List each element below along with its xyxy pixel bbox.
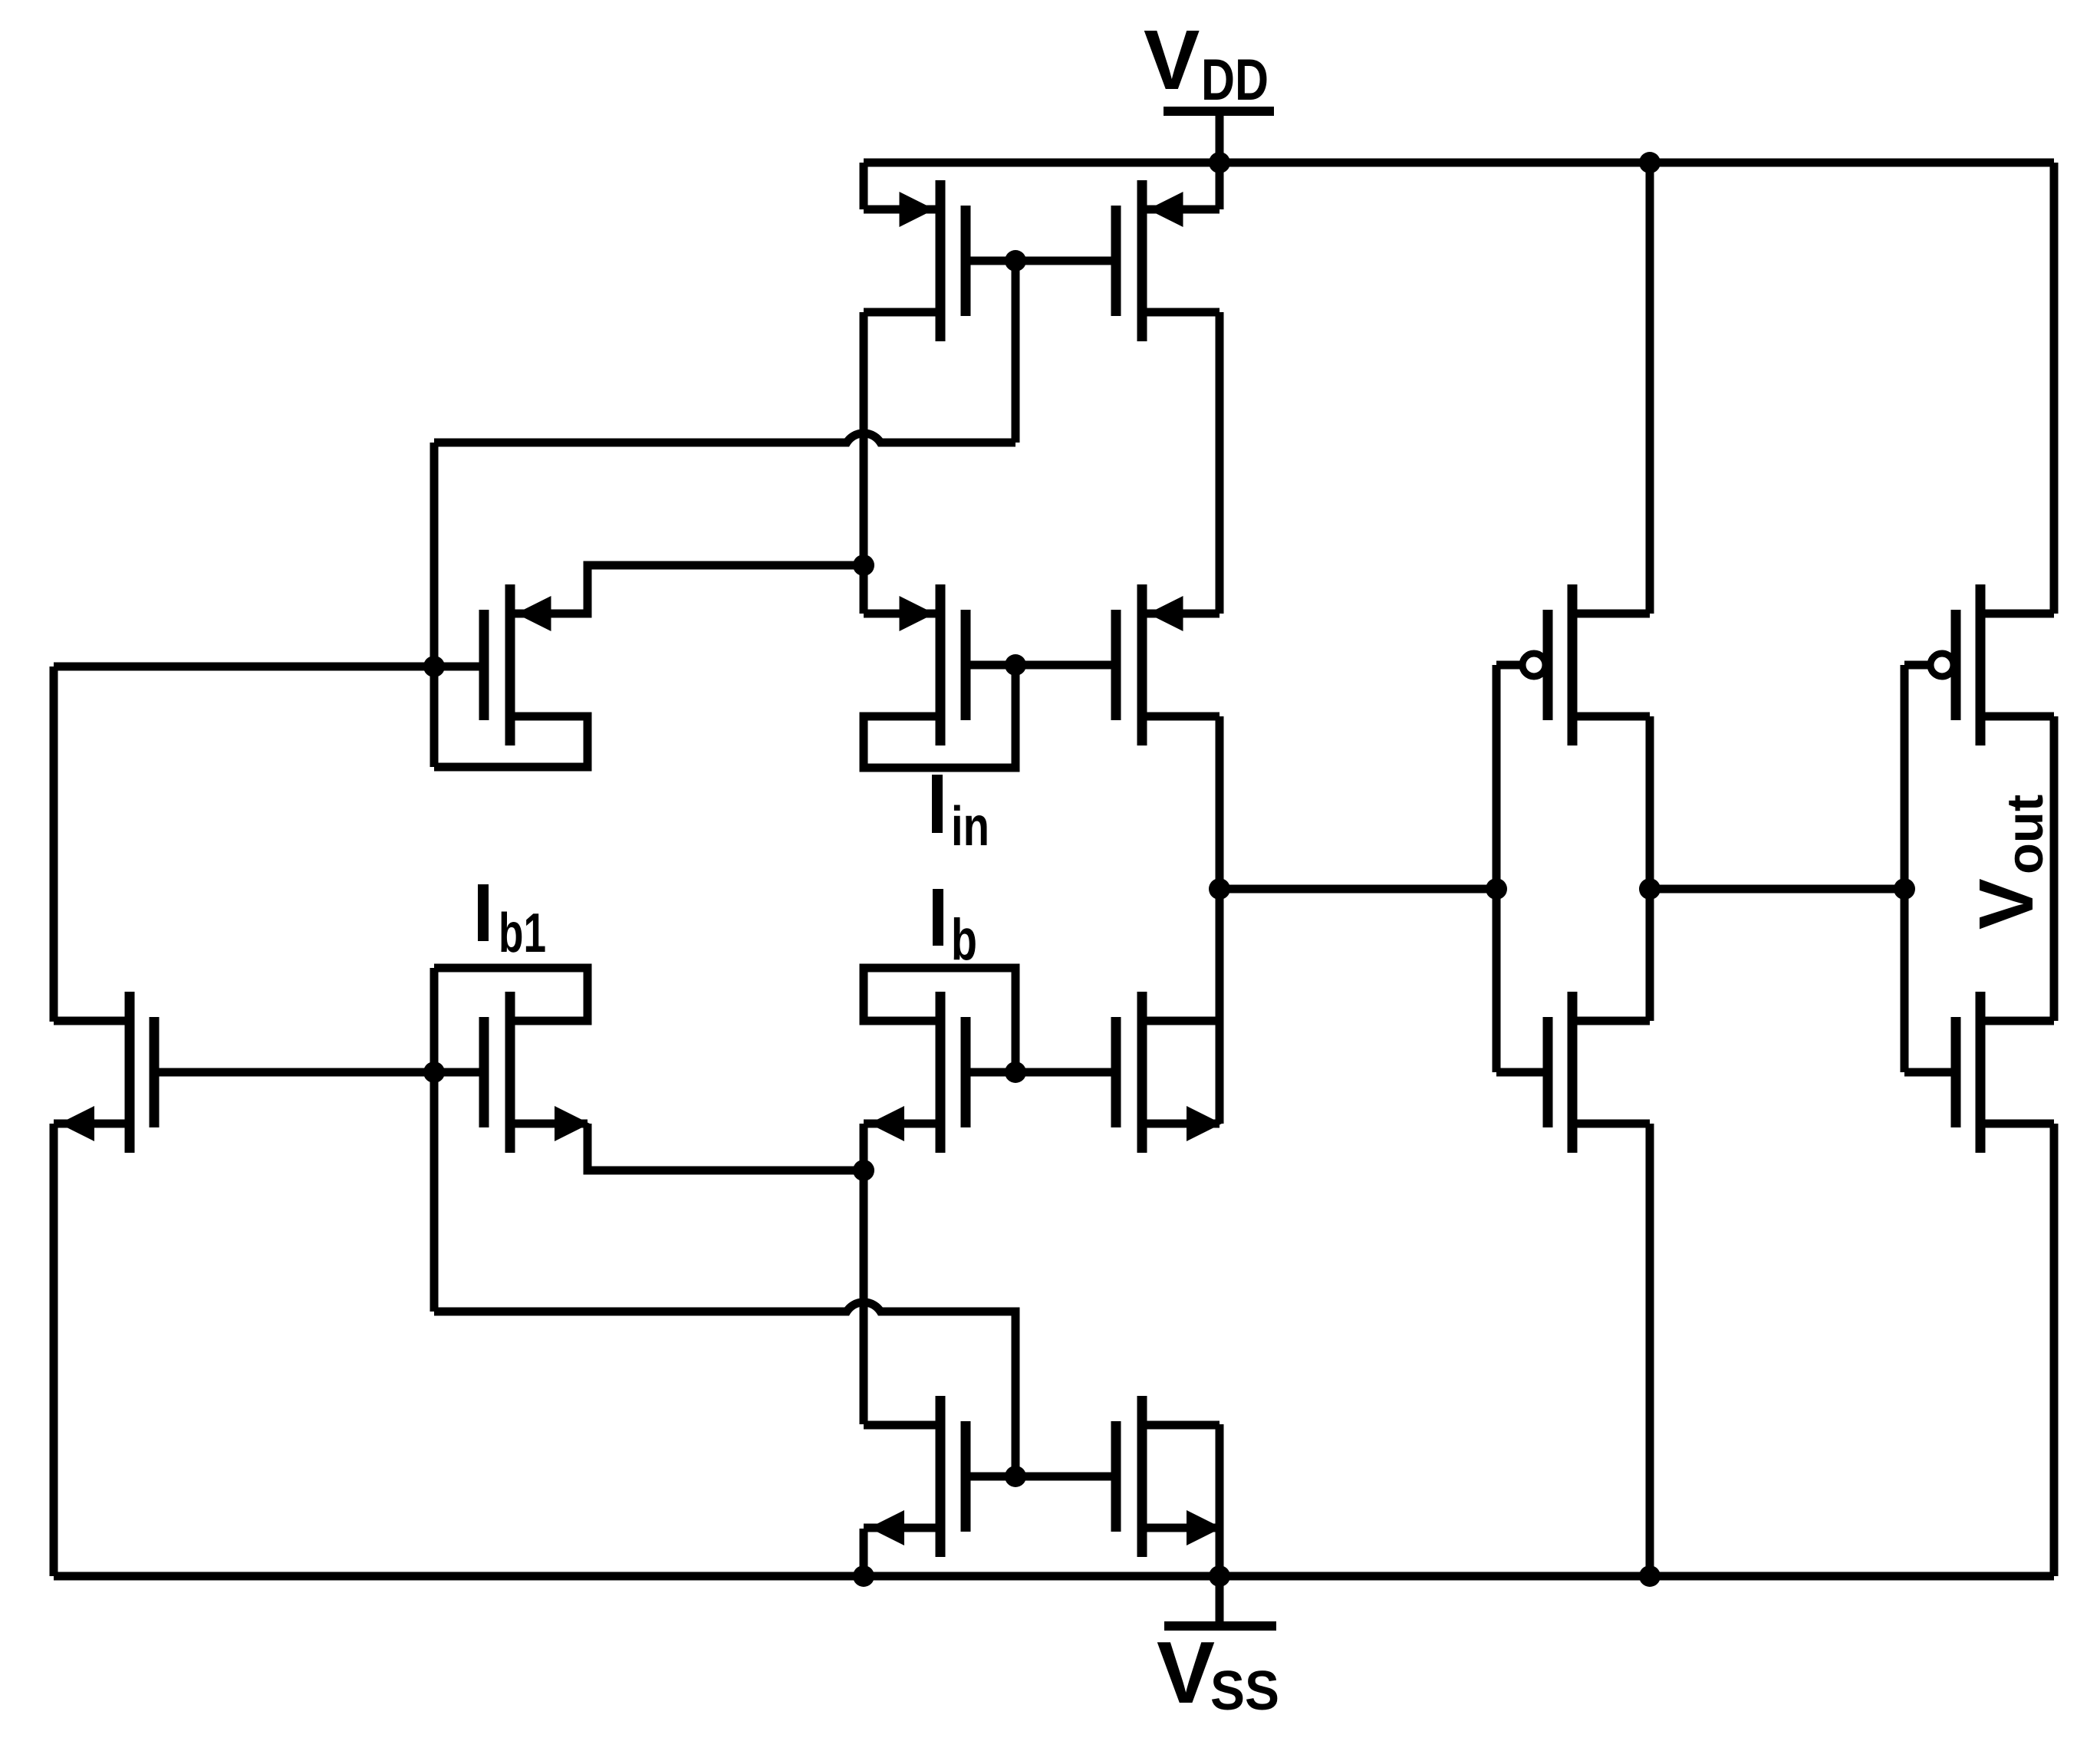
wire M3 source riser to node — [510, 565, 864, 614]
label Ib1 — [478, 884, 489, 941]
op-amp output branch1 NMOS source to rail — [1646, 1124, 1654, 1576]
transistor M7 Ib NMOS right — [1137, 992, 1147, 1153]
wire M3 gate net to far-left NMOS drain — [54, 663, 434, 671]
transistor M9 Ib1 diode NMOS — [505, 992, 515, 1153]
node M3 gate-drain junction — [423, 656, 445, 677]
svg-text:V: V — [1963, 878, 2049, 930]
transistor M10 bottom NMOS left — [936, 1396, 946, 1557]
op-amp output branch2 PMOS — [1951, 610, 1961, 720]
wire M11 drain column — [1216, 1424, 1224, 1529]
svg-text:out: out — [1996, 795, 2054, 874]
wire far-left drain vertical — [50, 666, 58, 1022]
wire y577 to diode PMOS with hop over M1 drain — [434, 433, 1015, 443]
wire M8 gate lead to Ib1 gate node — [154, 1068, 434, 1077]
svg-text:b: b — [951, 907, 977, 973]
wire M10 source to rail — [860, 1529, 868, 1576]
svg-text:b1: b1 — [499, 903, 546, 964]
node output stage1 junction — [1209, 878, 1230, 900]
wire M10-M11 gate link — [966, 1473, 1116, 1481]
wire M8 source to bottom rail — [50, 1124, 58, 1576]
op-amp output branch2 PMOS gate line and bubble — [1901, 665, 1909, 1072]
node M6-source / Ib1-source junction — [853, 1160, 874, 1181]
wire branch1 drain to branch2 gate — [1650, 885, 1904, 894]
wire M9 source to M6 source column — [588, 1124, 864, 1170]
op-amp output branch2 NMOS — [1951, 1017, 1961, 1127]
node bottom gate junction — [1005, 1466, 1026, 1487]
node M1-M2 gate junction — [1005, 250, 1026, 272]
svg-text:SS: SS — [1210, 1660, 1279, 1722]
wire M9 drain to Ib1 staple — [434, 968, 588, 1021]
svg-text:V: V — [1144, 13, 1200, 107]
node branch1 gate junction — [1486, 878, 1507, 900]
op-amp output branch2 NMOS source to rail — [2050, 1124, 2059, 1576]
node rail-VSS junction — [1209, 1565, 1230, 1587]
transistor M4 cascode PMOS left — [936, 584, 946, 745]
transistor M11 bottom NMOS right — [1137, 1396, 1147, 1557]
op-amp output branch1 PMOS drain column — [1646, 716, 1654, 1021]
node VDD stub junction — [1209, 152, 1230, 173]
wire M4-M5 gate link — [966, 661, 1116, 670]
op-amp output branch2 PMOS source to rail — [2050, 163, 2059, 614]
op-amp output branch1 PMOS gate line and bubble — [1493, 665, 1501, 1072]
svg-text:V: V — [1157, 1624, 1215, 1722]
wire M6 source column — [860, 1124, 868, 1424]
wire M1-M2 gate link — [966, 257, 1116, 265]
wire M1 drain column — [860, 312, 868, 614]
wire M7 drain column — [1216, 1021, 1224, 1124]
wire M2 source from VDD stub — [1216, 163, 1224, 209]
wire M5 drain column to output node — [1216, 716, 1224, 1022]
node rail-M10 junction — [853, 1565, 874, 1587]
node rail-branch1-nmos junction — [1639, 1565, 1661, 1587]
node branch1 drain junction — [1639, 878, 1661, 900]
wire M11 source to rail — [1216, 1529, 1224, 1576]
wire M3 drain loop to gate column — [434, 716, 588, 767]
label Ib — [933, 889, 943, 946]
wire M6 drain to Ib staple — [864, 968, 1015, 1072]
wire output node to branch1 gate — [1220, 885, 1496, 894]
op-amp output branch1 PMOS source to rail — [1646, 163, 1654, 614]
op-amp output branch1 PMOS — [1543, 610, 1553, 720]
wire VSS bottom rail — [54, 1572, 2054, 1581]
op-amp output branch1 NMOS — [1543, 1017, 1553, 1127]
transistor M2 top-right PMOS — [1137, 180, 1147, 341]
VSS power symbol — [1216, 1576, 1224, 1621]
node M1-drain / M3-source / M4-source junction — [853, 555, 874, 576]
wire M3 gate lead — [434, 663, 484, 671]
transistor M1 top-left PMOS — [936, 180, 946, 341]
wire gate node down to y577 — [1012, 261, 1020, 443]
svg-text:DD: DD — [1201, 48, 1269, 113]
svg-text:in: in — [951, 796, 989, 857]
transistor M8 far-left NMOS — [125, 992, 135, 1153]
node Ib gate junction — [1005, 1061, 1026, 1083]
label Iin — [932, 775, 943, 833]
transistor M3 diode PMOS — [505, 584, 515, 745]
wire lower gate net with hop over M6 source column — [434, 1302, 1015, 1476]
transistor M5 cascode PMOS right — [1137, 584, 1147, 745]
op-amp output branch2 PMOS drain column — [2050, 716, 2059, 1021]
node Ib1 gate junction — [423, 1061, 445, 1083]
wire M2 drain column — [1216, 312, 1224, 614]
wire VDD top rail — [864, 159, 2054, 167]
wire M1 source from rail — [860, 163, 868, 209]
node cascode gate junction — [1005, 654, 1026, 676]
wire M9 gate lead — [434, 1068, 484, 1077]
wire M4 drain to Iin staple — [864, 665, 1015, 768]
node rail-branch1 junction — [1639, 152, 1661, 173]
transistor M6 Ib NMOS left — [936, 992, 946, 1153]
wire Ib1 gate column down — [430, 968, 439, 1312]
wire M6-M7 gate link — [966, 1068, 1116, 1077]
VDD power symbol — [1164, 107, 1274, 116]
wire M3 gate-drain vertical — [430, 443, 439, 767]
node branch2 gate junction — [1894, 878, 1915, 900]
